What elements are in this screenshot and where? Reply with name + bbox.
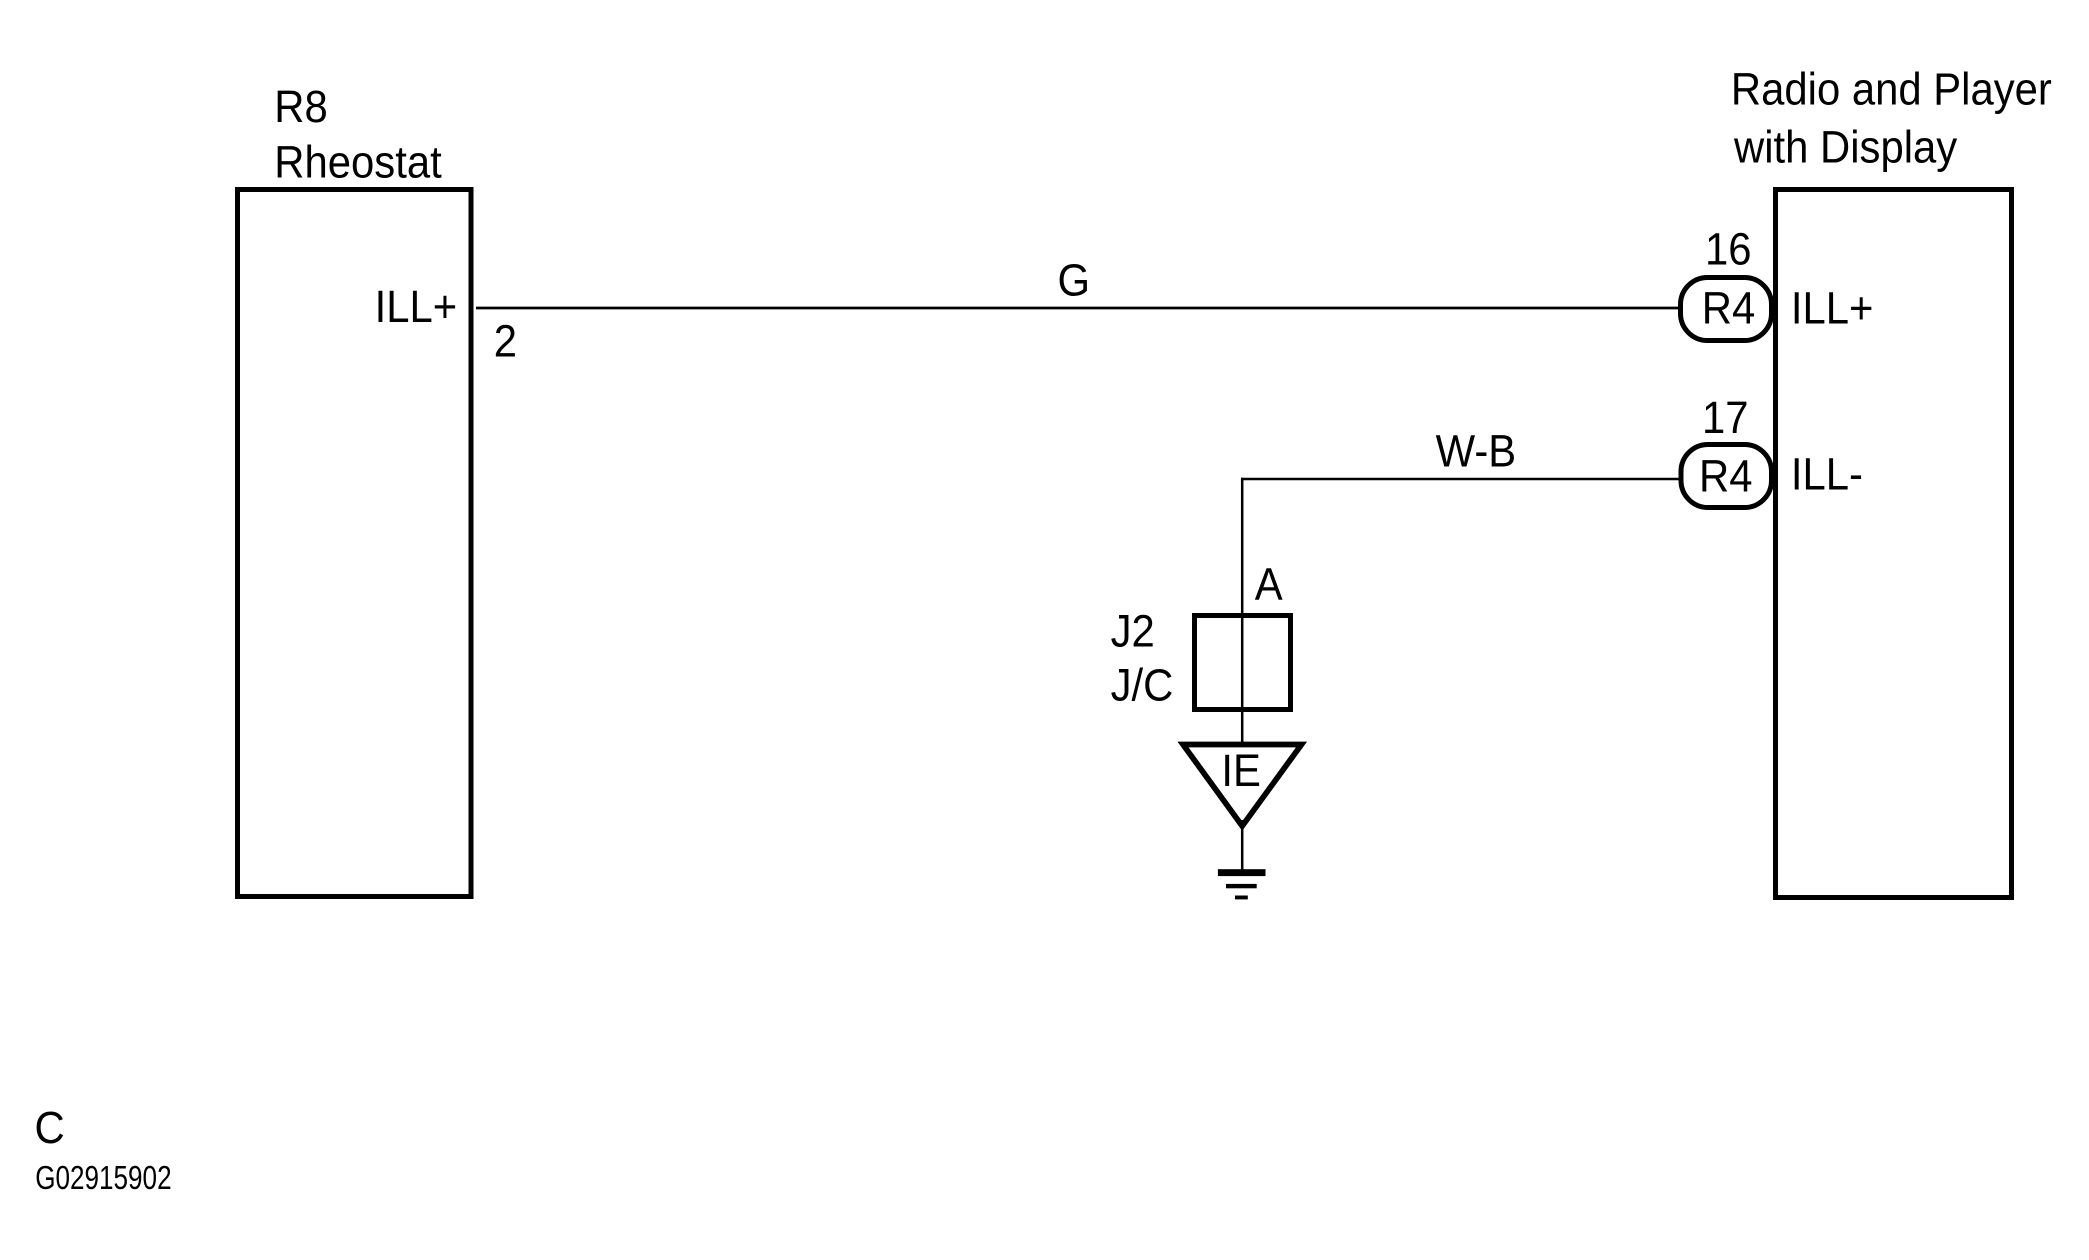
svg-text:R8: R8 bbox=[274, 83, 327, 133]
label with Display bbox=[1733, 123, 1957, 173]
label Rheostat bbox=[274, 138, 441, 188]
pin label ILL+ (rheostat side) bbox=[375, 283, 458, 333]
wire triangle apex to ground bbox=[1241, 820, 1244, 871]
ground triangle IE bbox=[1183, 745, 1302, 827]
svg-text:16: 16 bbox=[1705, 225, 1752, 275]
label R8 bbox=[274, 83, 327, 133]
svg-text:W-B: W-B bbox=[1436, 427, 1517, 477]
wire W-B vertical (down to junction J2) bbox=[1241, 478, 1244, 744]
label J/C bbox=[1111, 661, 1174, 711]
diagram number G02915902 bbox=[35, 1159, 171, 1196]
svg-text:ILL+: ILL+ bbox=[1791, 284, 1874, 334]
connector oval R4 pin 16 bbox=[1681, 278, 1772, 341]
pin label ILL- (radio side) bbox=[1791, 450, 1863, 500]
svg-text:ILL-: ILL- bbox=[1791, 450, 1863, 500]
label R4 (pin 16 oval) bbox=[1702, 284, 1755, 334]
pin number 2 bbox=[494, 317, 517, 367]
svg-text:C: C bbox=[35, 1104, 65, 1154]
box Radio and Player with Display bbox=[1776, 190, 2012, 898]
svg-text:J/C: J/C bbox=[1111, 661, 1174, 711]
svg-text:R4: R4 bbox=[1699, 452, 1752, 502]
svg-text:G: G bbox=[1058, 256, 1091, 306]
svg-text:A: A bbox=[1255, 560, 1283, 610]
label J2 bbox=[1111, 607, 1155, 657]
wire G (rheostat pin 2 to radio pin 16) bbox=[476, 307, 1678, 310]
svg-text:R4: R4 bbox=[1702, 284, 1755, 334]
wire W-B horizontal (junction to radio pin 17) bbox=[1241, 478, 1679, 480]
ground symbol bbox=[1218, 869, 1266, 899]
wire label G bbox=[1058, 256, 1091, 306]
section label C bbox=[35, 1104, 65, 1154]
label R4 (pin 17 oval) bbox=[1699, 452, 1752, 502]
svg-text:J2: J2 bbox=[1111, 607, 1155, 657]
label Radio and Player bbox=[1731, 65, 2052, 115]
svg-text:IE: IE bbox=[1221, 747, 1261, 797]
node A bbox=[1255, 560, 1283, 610]
pin number 16 bbox=[1705, 225, 1752, 275]
svg-text:17: 17 bbox=[1702, 394, 1749, 444]
svg-text:2: 2 bbox=[494, 317, 517, 367]
connector oval R4 pin 17 bbox=[1681, 445, 1772, 508]
svg-text:ILL+: ILL+ bbox=[375, 283, 458, 333]
junction connector J2 J/C box bbox=[1195, 616, 1291, 710]
svg-text:Rheostat: Rheostat bbox=[274, 138, 441, 188]
pin label ILL+ (radio side) bbox=[1791, 284, 1874, 334]
svg-text:with Display: with Display bbox=[1733, 123, 1957, 173]
box R8 Rheostat bbox=[238, 190, 472, 897]
pin number 17 bbox=[1702, 394, 1749, 444]
svg-text:Radio and Player: Radio and Player bbox=[1731, 65, 2052, 115]
svg-text:G02915902: G02915902 bbox=[35, 1159, 171, 1196]
label IE bbox=[1221, 747, 1261, 797]
wire label W-B bbox=[1436, 427, 1517, 477]
